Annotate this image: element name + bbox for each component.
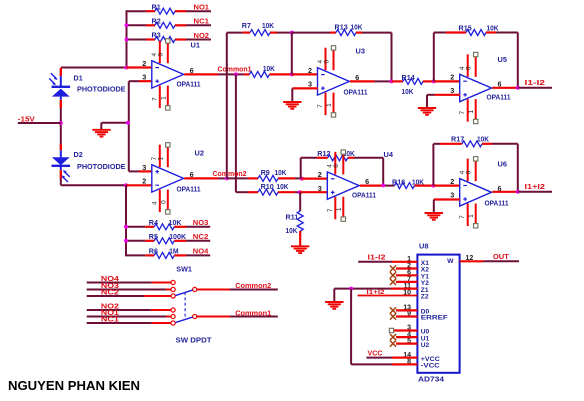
wire U5 pin 3 to ground — [427, 94, 434, 96]
svg-text:4: 4 — [151, 201, 158, 205]
U8 pin 9 ERREF — [407, 311, 448, 322]
svg-text:PHOTODIODE: PHOTODIODE — [77, 164, 126, 171]
svg-text:0: 0 — [466, 66, 473, 70]
svg-text:2: 2 — [142, 177, 146, 186]
svg-text:0: 0 — [466, 170, 473, 174]
svg-text:1M: 1M — [169, 246, 179, 255]
resistor R3 — [152, 31, 176, 43]
svg-text:NO4: NO4 — [193, 246, 209, 255]
node ground tee junction — [126, 121, 130, 125]
svg-text:3: 3 — [142, 163, 146, 172]
svg-text:NO3: NO3 — [193, 218, 209, 227]
svg-text:R5: R5 — [149, 232, 158, 241]
svg-text:NO1: NO1 — [194, 3, 210, 12]
svg-text:I1-I2: I1-I2 — [368, 253, 386, 262]
wire R15 row left — [434, 32, 446, 34]
node Z1/-VCC junction — [349, 287, 353, 291]
wire R4 row — [125, 226, 145, 228]
svg-text:3: 3 — [318, 184, 322, 193]
junction — [125, 23, 129, 27]
svg-text:D2: D2 — [74, 150, 83, 159]
svg-text:10K: 10K — [412, 178, 425, 187]
svg-text:10K: 10K — [277, 182, 290, 191]
wire R3 row — [126, 39, 147, 41]
U8 pin 8 -VCC — [407, 359, 440, 370]
node U4 out junction — [381, 183, 385, 187]
wire switch row NO2 — [87, 309, 151, 311]
svg-text:OPA111: OPA111 — [344, 87, 368, 96]
resistor R14 10K — [392, 73, 434, 96]
node R7-R13 junction — [290, 31, 294, 35]
svg-text:OPA111: OPA111 — [485, 198, 509, 207]
wire R13 left — [292, 32, 330, 34]
op-amp U6 — [460, 179, 492, 206]
wire Common2 bus up — [226, 33, 228, 179]
svg-text:R2: R2 — [152, 17, 161, 26]
svg-text:U2: U2 — [195, 148, 204, 157]
wire I1+I2 out — [518, 191, 552, 193]
U8 pin 4 U1 — [407, 331, 429, 342]
wire U3 pin 2 stub — [292, 73, 318, 75]
svg-text:OPA111: OPA111 — [177, 185, 201, 194]
resistor R5 100K — [149, 232, 187, 244]
wire R2 row — [126, 24, 147, 26]
resistor R10 10K — [258, 182, 289, 195]
node U5 pin2 junction — [432, 79, 436, 83]
svg-text:VCC: VCC — [368, 348, 384, 357]
node U6 out junction — [516, 190, 520, 194]
U8 pin 14 +VCC — [403, 352, 440, 363]
junction — [124, 225, 128, 229]
wire R17 right to U6 output — [482, 143, 492, 145]
svg-text:R9: R9 — [261, 168, 270, 177]
switch SW1 contacts — [171, 280, 197, 325]
resistor R17 10K — [451, 135, 490, 147]
wire U6 pin 3 to ground — [434, 198, 460, 200]
wire Z2 (I1+I2) — [358, 295, 418, 297]
photodiode D2 — [52, 144, 126, 182]
resistor R7 10K — [242, 21, 275, 36]
ground G6 (R11) — [291, 246, 309, 253]
resistor R16 10K — [385, 178, 433, 189]
svg-text:0: 0 — [158, 53, 165, 57]
node Common1 junction — [234, 72, 238, 76]
wire U2 pin 2 stub — [126, 184, 152, 186]
node U4 pin2 junction — [300, 177, 304, 181]
svg-text:SW DPDT: SW DPDT — [176, 335, 213, 344]
svg-text:U2: U2 — [421, 342, 430, 349]
wire U3 output — [350, 80, 375, 82]
wire ground tee — [101, 122, 129, 124]
svg-text:U1: U1 — [191, 40, 200, 49]
wire U1 pin 2 stub — [127, 66, 153, 68]
svg-text:I1+I2: I1+I2 — [367, 289, 385, 296]
wire +VCC — [366, 357, 392, 359]
wire U4 output — [360, 185, 385, 187]
svg-text:7: 7 — [151, 97, 158, 101]
svg-text:NC1: NC1 — [101, 314, 119, 323]
U8 pin 11 Z1 — [404, 283, 429, 294]
svg-text:AD734: AD734 — [418, 376, 444, 383]
svg-text:0: 0 — [333, 164, 340, 168]
wire U6 pin 2 stub — [433, 185, 460, 187]
switch SW1 arms — [175, 290, 192, 323]
wire feedback bus A (U1 pin2 net) — [126, 11, 128, 68]
wire U3 pin 3 to ground — [292, 87, 318, 89]
wire R10 row — [236, 191, 248, 193]
svg-text:I1-I2: I1-I2 — [525, 78, 546, 87]
svg-text:NC2: NC2 — [193, 232, 209, 241]
svg-text:2: 2 — [450, 177, 454, 186]
U8 pin 12 W output — [447, 255, 473, 265]
svg-text:3: 3 — [308, 80, 312, 89]
svg-text:U3: U3 — [356, 47, 365, 56]
node U3 pin2 junction — [290, 72, 294, 76]
svg-text:W: W — [447, 258, 454, 265]
svg-text:10K: 10K — [169, 218, 183, 227]
node U3 out junction — [390, 79, 394, 83]
svg-text:PHOTODIODE: PHOTODIODE — [77, 86, 126, 93]
U8 pin 1 wire (I1-I2) — [358, 261, 392, 263]
wire R15 bus up — [433, 33, 435, 82]
svg-text:1: 1 — [336, 207, 343, 211]
svg-text:10K: 10K — [402, 87, 415, 96]
svg-text:NC2: NC2 — [101, 287, 119, 296]
resistor R13 10K — [335, 23, 364, 36]
wire U6 output — [492, 191, 518, 193]
svg-text:Common2: Common2 — [213, 169, 247, 178]
U8 pin 13 D0 — [403, 305, 429, 316]
svg-text:2: 2 — [308, 66, 312, 75]
node U6 pin2 junction — [431, 184, 435, 188]
svg-text:7: 7 — [327, 208, 334, 212]
svg-text:R17: R17 — [451, 135, 464, 144]
op-amp U4 power pins — [327, 150, 346, 221]
wire OUT — [460, 260, 484, 262]
op-amp U6 power pins — [459, 157, 478, 228]
svg-text:R4: R4 — [149, 218, 158, 227]
svg-text:R10: R10 — [261, 182, 274, 191]
svg-text:U6: U6 — [498, 159, 507, 168]
U8 pin 2 X2 — [407, 263, 429, 274]
wire R6 row — [125, 254, 145, 256]
svg-text:1: 1 — [158, 157, 165, 161]
svg-text:I1+I2: I1+I2 — [525, 182, 546, 191]
node U2 pin2 junction — [124, 183, 128, 187]
U8 pin 5 U2 — [407, 338, 429, 349]
svg-text:3: 3 — [142, 73, 146, 82]
wire U4 pin 2 stub — [302, 178, 328, 180]
U8 pin 6 Y1 — [407, 270, 429, 281]
wire U1 pin 3 stub — [129, 80, 139, 82]
wire U4 pin 3 stub — [300, 191, 328, 193]
wire ground bus (U1 pin3 - U2 pin3) — [128, 81, 130, 171]
svg-text:Common1: Common1 — [218, 65, 252, 74]
resistor R6 1M — [149, 246, 179, 258]
svg-text:R16: R16 — [392, 178, 405, 187]
ground G4 (U6 pin3) — [425, 213, 443, 220]
ground G5 (U8) — [325, 302, 343, 309]
wire Common1 bus down — [235, 74, 237, 192]
svg-text:OPA111: OPA111 — [352, 190, 376, 199]
no-connect U2 — [390, 341, 418, 347]
svg-text:10K: 10K — [477, 135, 490, 144]
svg-text:R7: R7 — [242, 21, 251, 30]
U8 pin 7 Y2 — [407, 276, 429, 287]
wire U2 output — [184, 177, 218, 179]
svg-text:R12: R12 — [317, 149, 330, 158]
resistor R12 10K — [317, 149, 355, 161]
svg-text:0: 0 — [323, 60, 330, 64]
op-amp U5 power pins — [459, 52, 478, 123]
svg-text:1: 1 — [160, 96, 167, 100]
U8 pin 1 X1 — [407, 256, 429, 267]
wire U2 pin 3 stub — [129, 170, 139, 172]
svg-text:R14: R14 — [402, 73, 415, 82]
svg-text:R13: R13 — [335, 23, 348, 32]
no-connect ERREF — [390, 313, 418, 319]
op-amp U3 power pins — [317, 46, 336, 117]
svg-text:10K: 10K — [263, 64, 276, 73]
wire R13 right to U3 output — [356, 31, 362, 33]
resistor R11 10K — [297, 192, 303, 246]
svg-text:2: 2 — [318, 170, 322, 179]
svg-text:NO2: NO2 — [194, 31, 210, 40]
wire D2 anode rail to U2 pin2 — [60, 179, 62, 186]
node U1 pin2 junction — [125, 66, 129, 70]
svg-text:2: 2 — [450, 73, 454, 82]
U8 pin 10 Z2 — [403, 290, 429, 301]
wire R7 row — [227, 32, 243, 34]
op-amp U4 — [327, 172, 359, 199]
svg-text:10K: 10K — [286, 226, 299, 235]
svg-text:100K: 100K — [169, 232, 187, 241]
wire Common1 from switch — [197, 316, 230, 318]
resistor R8 10K — [244, 64, 292, 78]
power label -15V — [18, 114, 61, 123]
svg-text:U8: U8 — [419, 242, 428, 251]
svg-text:0: 0 — [160, 200, 167, 204]
IC U8 AD734 body — [417, 255, 459, 373]
wire D1 to D2 (-15V node) — [60, 108, 62, 144]
node -15V junction — [59, 121, 63, 125]
svg-text:7: 7 — [317, 104, 324, 108]
op-amp U1 power pins — [151, 39, 170, 110]
wire R1 row — [126, 10, 147, 12]
no-connect U0 (square) — [389, 328, 417, 332]
junction — [125, 38, 129, 42]
svg-text:10K: 10K — [275, 168, 288, 177]
svg-text:R11: R11 — [286, 212, 299, 221]
svg-text:10K: 10K — [351, 23, 364, 32]
svg-text:10K: 10K — [487, 23, 500, 32]
no-connect Y2 — [390, 279, 418, 285]
svg-text:7: 7 — [459, 215, 466, 219]
resistor R9 10K — [258, 168, 287, 181]
junction — [124, 239, 128, 243]
wire R9 row — [227, 177, 248, 179]
op-amp U2 power pins — [151, 143, 170, 214]
svg-text:7: 7 — [459, 111, 466, 115]
svg-text:-VCC: -VCC — [421, 363, 440, 370]
svg-text:ERREF: ERREF — [421, 315, 448, 322]
resistor R4 10K — [149, 218, 182, 230]
op-amp U1 — [152, 61, 184, 88]
resistor R1 — [152, 2, 176, 14]
no-connect D0 — [390, 307, 418, 313]
wire -VCC to ground net — [350, 289, 352, 365]
svg-text:10K: 10K — [262, 21, 275, 30]
wire switch row NC1 — [87, 322, 152, 324]
wire R17 bus up — [432, 144, 434, 186]
svg-text:NGUYEN PHAN KIEN: NGUYEN PHAN KIEN — [8, 378, 140, 393]
svg-text:R1: R1 — [152, 2, 161, 11]
no-connect Y1 — [390, 272, 418, 278]
wire D1 cathode rail to U1 pin2 — [61, 67, 127, 69]
wire U1 output — [184, 73, 218, 75]
resistor R2 — [152, 17, 176, 29]
wire feedback bus B (U2 pin2 net) — [125, 185, 127, 255]
op-amp U3 — [318, 68, 350, 95]
node Common2 junction — [225, 176, 229, 180]
op-amp U5 — [460, 74, 492, 101]
ground G2 (U3 pin3) — [283, 102, 301, 109]
svg-text:1: 1 — [326, 103, 333, 107]
svg-text:Common1: Common1 — [235, 309, 271, 318]
wire Common2 from switch — [197, 289, 230, 291]
wire R5 row — [125, 240, 145, 242]
wire switch row NO3 — [87, 289, 166, 291]
U8 pin 3 U0 — [407, 325, 429, 336]
svg-text:1: 1 — [468, 110, 475, 114]
svg-text:R15: R15 — [459, 23, 472, 32]
node U5 out junction — [516, 86, 520, 90]
svg-text:Z2: Z2 — [421, 294, 429, 301]
op-amp U2 — [152, 165, 184, 192]
photodiode D1 — [49, 68, 126, 108]
svg-text:3: 3 — [450, 191, 454, 200]
wire U5 output — [492, 87, 518, 89]
wire switch row NC2 — [87, 295, 145, 297]
svg-text:NC1: NC1 — [194, 17, 210, 26]
wire R17 row left — [433, 143, 440, 145]
wire U5 pin 2 stub — [434, 80, 460, 82]
svg-text:OUT: OUT — [493, 252, 509, 261]
svg-text:SW1: SW1 — [176, 264, 192, 273]
node U4 pin3 junction — [298, 190, 302, 194]
svg-text:D1: D1 — [74, 74, 83, 83]
svg-text:Common2: Common2 — [235, 281, 271, 290]
svg-text:U5: U5 — [498, 55, 507, 64]
svg-text:R6: R6 — [149, 246, 158, 255]
wire R12 feedback — [301, 157, 317, 159]
svg-text:R3: R3 — [152, 31, 161, 40]
svg-text:U4: U4 — [384, 150, 394, 159]
svg-text:OPA111: OPA111 — [487, 93, 511, 102]
wire switch row NO4 — [87, 282, 152, 284]
ground G3 (U5 pin3) — [418, 108, 436, 115]
svg-text:1: 1 — [468, 214, 475, 218]
wire Z1 to ground — [391, 288, 417, 290]
svg-text:OPA111: OPA111 — [177, 79, 201, 88]
svg-text:-15V: -15V — [18, 114, 35, 123]
wire R15 right to U5 output — [486, 31, 496, 33]
wire switch row NO1 — [87, 316, 166, 318]
R11 labels — [286, 212, 299, 235]
wire R7-R13 node down to U3 pin2 — [291, 33, 293, 75]
ground G1 — [92, 130, 110, 137]
svg-text:2: 2 — [142, 59, 146, 68]
wire I1-I2 out — [518, 87, 552, 89]
no-connect X2 — [390, 265, 418, 271]
no-connect U1 — [390, 334, 418, 340]
resistor R15 10K — [459, 23, 500, 35]
